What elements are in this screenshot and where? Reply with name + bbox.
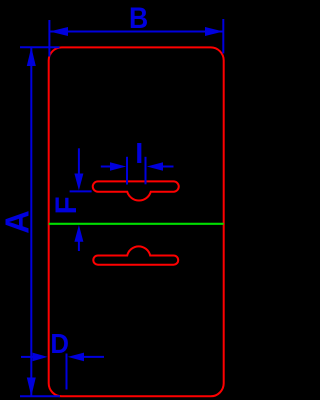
dimension A extension line top xyxy=(20,46,60,48)
svg-text:D: D xyxy=(50,328,69,359)
dimension I arrow left (tail + head) xyxy=(101,166,112,168)
dimension I arrow right (head + tail) xyxy=(147,162,163,171)
dimension F arrow bottom (head pointing up + tail) xyxy=(74,225,83,242)
dimension B extension line right xyxy=(222,19,224,54)
fold line (green) xyxy=(49,223,224,225)
dimension D arrow left (tail + head, pointing right) xyxy=(21,356,34,358)
dimension I extension line left xyxy=(126,157,128,185)
dimension B line (horizontal, top) xyxy=(49,31,223,33)
dimension A arrowhead top xyxy=(27,47,36,66)
dimension B extension line left xyxy=(48,20,50,57)
svg-text:A: A xyxy=(0,210,36,234)
dimension A line (vertical, left) xyxy=(30,47,32,396)
dimension B arrowhead left xyxy=(50,27,68,36)
svg-text:B: B xyxy=(129,2,148,35)
svg-text:I: I xyxy=(135,138,143,170)
euro slot (upper, bump down) xyxy=(93,181,179,200)
dimension F extension line (slot bottom level) xyxy=(70,190,92,192)
dimension D arrow right (head pointing left + tail) xyxy=(68,353,84,362)
svg-text:F: F xyxy=(50,196,83,214)
dimension D extension line right xyxy=(66,354,68,390)
dimension A extension line bottom xyxy=(20,395,60,397)
euro slot (lower, bump up) xyxy=(93,246,178,264)
dimension F arrow top (tail + head, pointing down) xyxy=(78,148,80,176)
dimension I extension line right xyxy=(145,157,147,185)
dimension A arrowhead bottom xyxy=(27,378,36,397)
dimension B arrowhead right xyxy=(205,27,223,36)
card outline (rounded rectangle) xyxy=(49,47,224,396)
